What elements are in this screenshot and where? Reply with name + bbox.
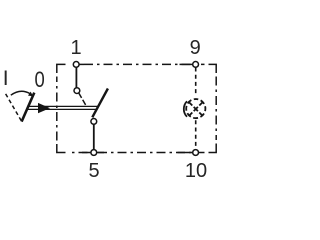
svg-text:1: 1 [70, 37, 81, 59]
terminal 1 circle [73, 62, 79, 68]
housing border right edge [215, 77, 217, 141]
movement arc arrowhead [28, 92, 33, 97]
svg-text:I: I [3, 67, 9, 90]
terminal 10 stub [178, 152, 193, 154]
wire lamp to terminal 10 (dashed) [195, 120, 197, 149]
pivot circle [91, 119, 97, 125]
terminal 10 circle [193, 150, 199, 156]
wire pivot to terminal 5 [93, 122, 95, 151]
terminal 5 circle [91, 150, 97, 156]
housing border bottom-right corner [209, 144, 217, 153]
contact arm (terminal 5 moving contact) [92, 89, 108, 118]
actuator bridge top line [27, 105, 99, 107]
terminal 9 circle [193, 62, 199, 68]
housing border top edge [84, 63, 205, 65]
actuator direction arrow [38, 103, 50, 113]
actuator bridge bottom line [26, 108, 97, 110]
terminal 5 stubs [82, 152, 104, 154]
housing border left edge [56, 77, 58, 141]
lamp parenthesis [184, 101, 187, 117]
illumination lamp circle (dashed) [186, 99, 205, 118]
housing border bottom-left corner [57, 144, 66, 153]
lever position I (dashed) [6, 94, 22, 121]
fixed contact circle [74, 88, 80, 94]
lamp X stroke 1 [189, 102, 203, 116]
terminal 1 stub [79, 63, 85, 65]
housing border bottom edge [69, 152, 205, 154]
housing border top-right corner [209, 64, 217, 73]
movement arc [11, 91, 30, 95]
terminal 9 stub [180, 63, 194, 65]
lever position 0 (solid) [22, 93, 35, 122]
svg-text:5: 5 [89, 160, 100, 182]
svg-text:10: 10 [185, 160, 207, 182]
lamp X stroke 2 [189, 102, 203, 116]
wire terminal 9 to lamp (dashed) [195, 68, 197, 96]
svg-text:0: 0 [34, 67, 44, 92]
fixed contact slash [79, 93, 86, 105]
wire terminal 1 to fixed contact [75, 66, 77, 88]
housing border top-left corner [57, 64, 66, 73]
svg-text:9: 9 [190, 37, 201, 59]
